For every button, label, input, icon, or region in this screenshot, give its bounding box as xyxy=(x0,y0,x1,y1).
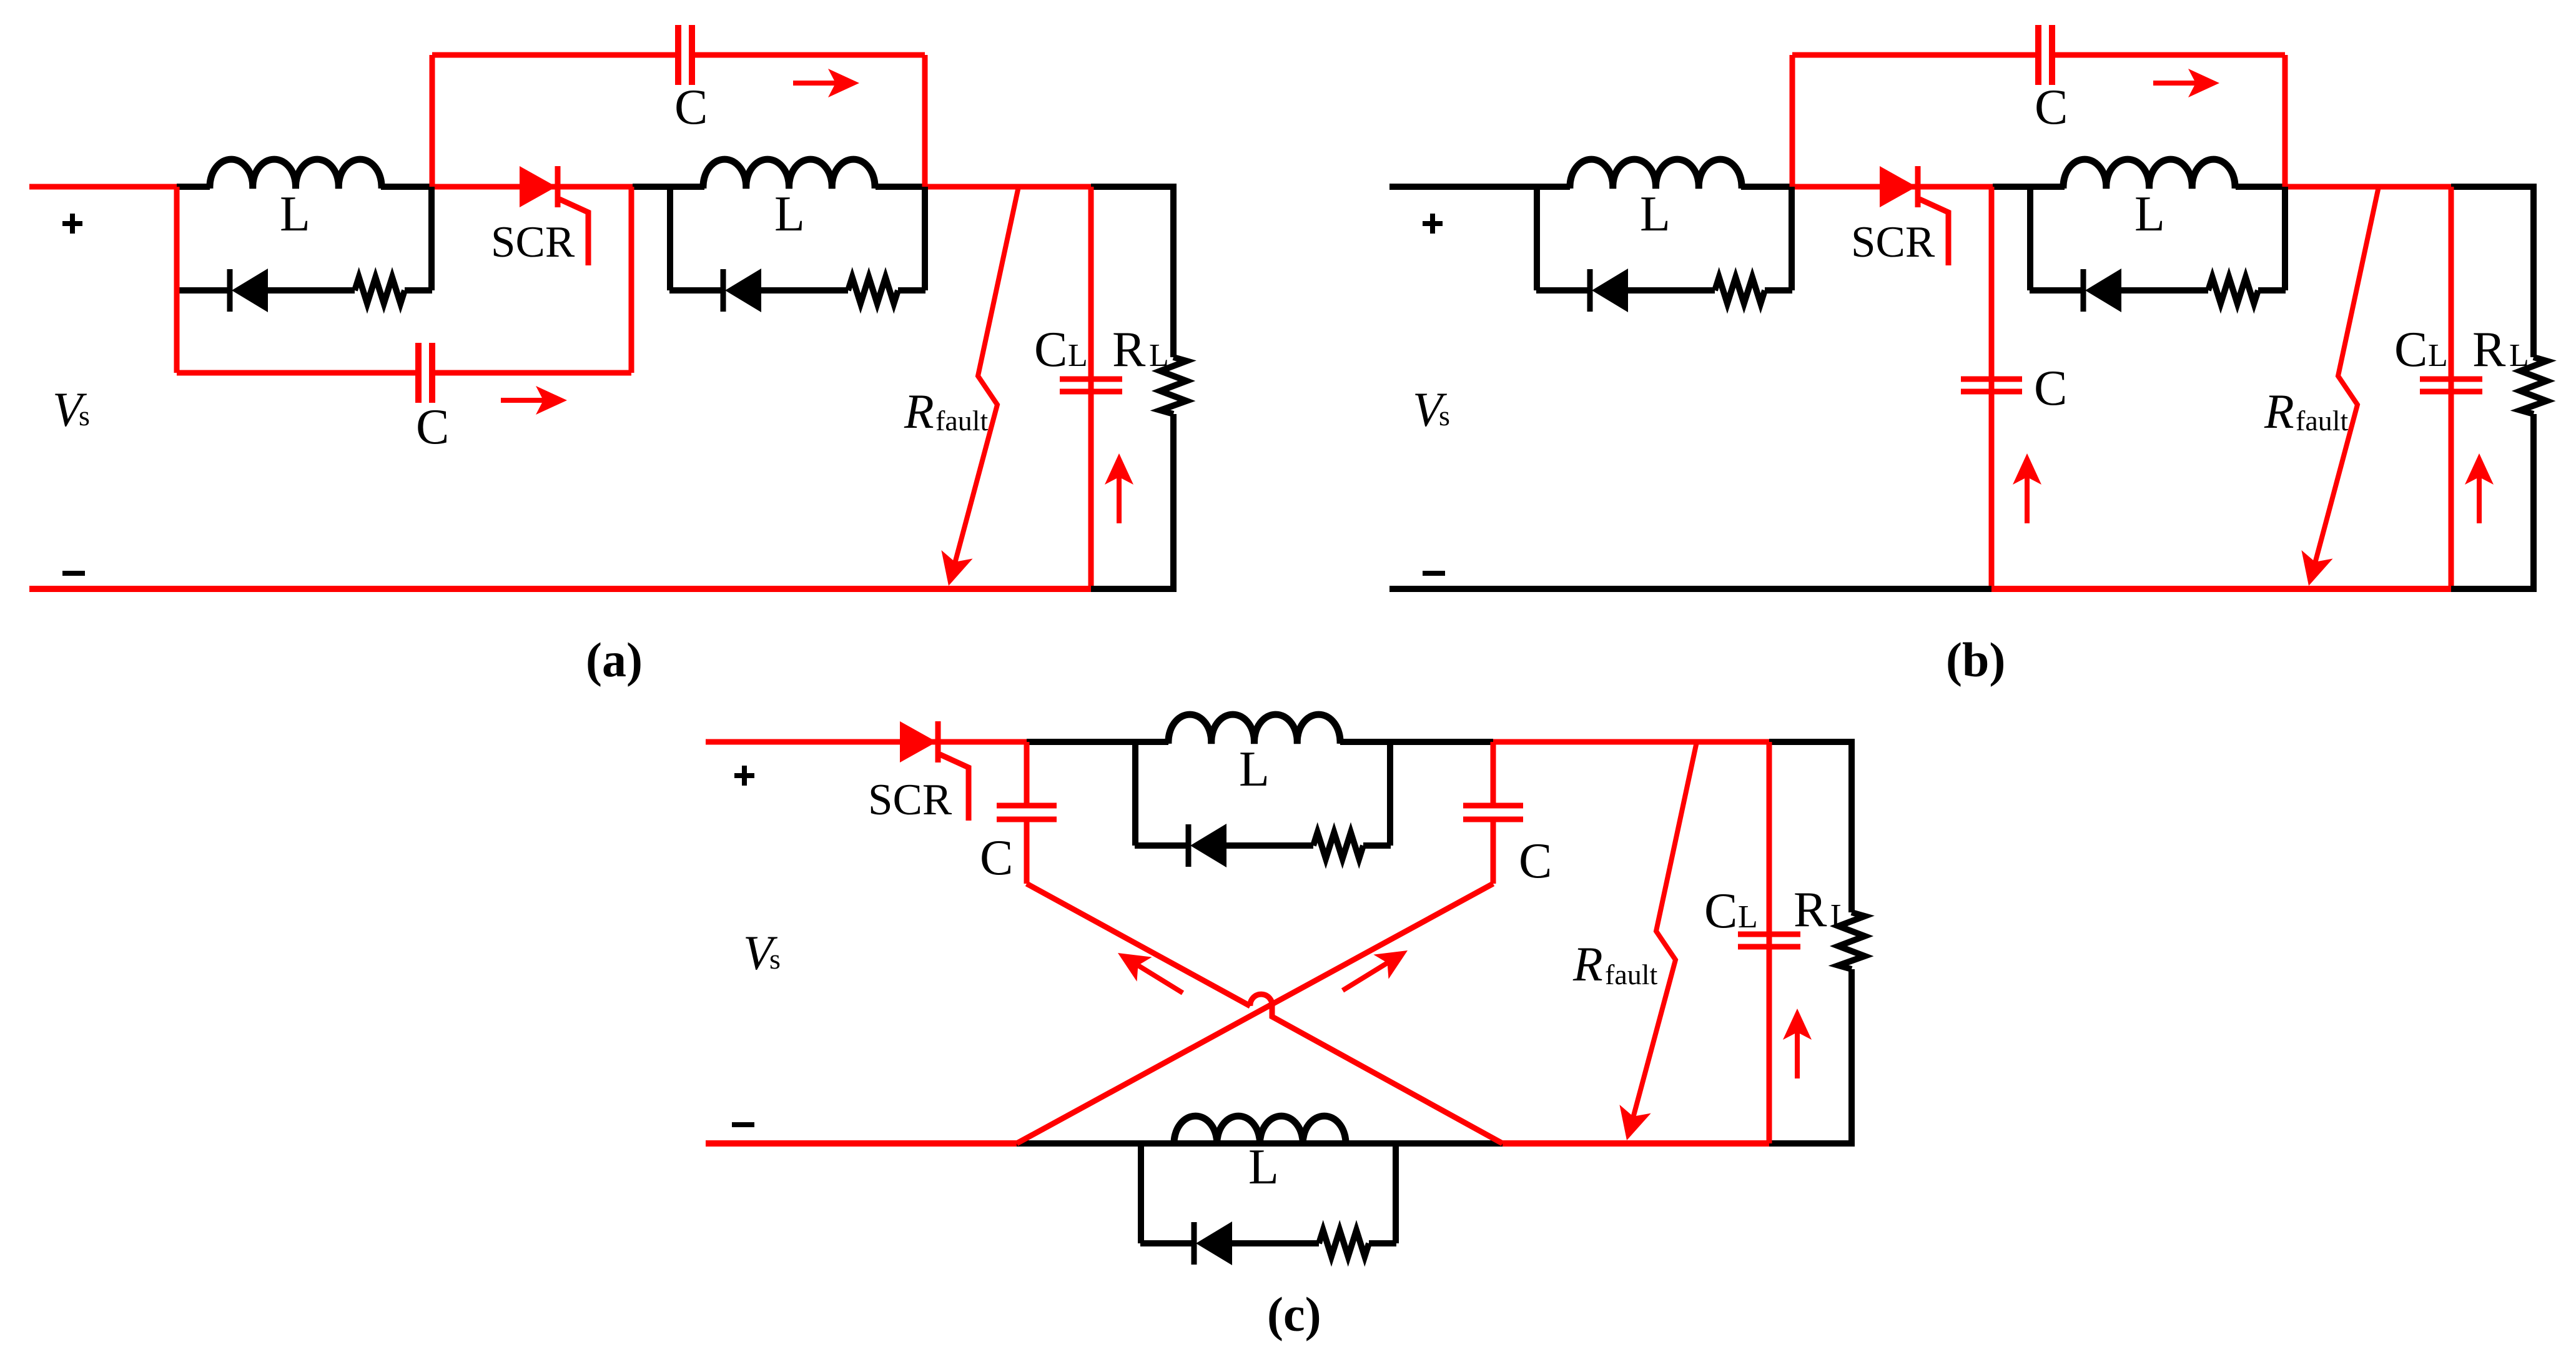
svg-text:R: R xyxy=(1794,882,1827,937)
svg-text:s: s xyxy=(79,400,90,432)
svg-text:L: L xyxy=(1239,742,1270,797)
svg-text:L: L xyxy=(1068,338,1088,373)
svg-text:L: L xyxy=(1248,1140,1279,1195)
svg-text:C: C xyxy=(2034,361,2067,416)
svg-text:C: C xyxy=(1519,834,1552,889)
svg-text:C: C xyxy=(2035,80,2068,135)
svg-text:SCR: SCR xyxy=(491,218,575,267)
svg-text:fault: fault xyxy=(935,405,989,437)
svg-text:SCR: SCR xyxy=(868,776,952,824)
svg-text:R: R xyxy=(1112,322,1146,377)
svg-text:C: C xyxy=(1704,884,1737,939)
svg-text:C: C xyxy=(1034,322,1067,377)
svg-text:s: s xyxy=(769,943,781,975)
svg-text:s: s xyxy=(1439,400,1450,432)
svg-text:R: R xyxy=(904,384,934,438)
svg-text:(a): (a) xyxy=(586,633,643,687)
svg-text:L: L xyxy=(1830,898,1850,934)
svg-text:C: C xyxy=(980,831,1013,886)
svg-text:fault: fault xyxy=(1605,959,1658,990)
svg-text:fault: fault xyxy=(2296,405,2349,437)
svg-text:L: L xyxy=(2134,187,2165,242)
svg-text:(c): (c) xyxy=(1267,1287,1321,1341)
svg-text:L: L xyxy=(1149,338,1169,373)
svg-text:L: L xyxy=(2428,338,2448,373)
svg-text:(b): (b) xyxy=(1946,633,2005,687)
svg-text:R: R xyxy=(1572,937,1603,991)
svg-text:R: R xyxy=(2264,384,2294,438)
svg-text:L: L xyxy=(280,187,310,242)
svg-text:L: L xyxy=(1738,899,1758,935)
svg-text:SCR: SCR xyxy=(1851,218,1935,267)
svg-text:C: C xyxy=(416,400,449,455)
svg-text:R: R xyxy=(2472,322,2506,377)
svg-text:C: C xyxy=(2394,322,2427,377)
svg-text:L: L xyxy=(1640,187,1670,242)
svg-text:L: L xyxy=(774,187,805,242)
svg-text:L: L xyxy=(2509,338,2529,373)
svg-text:C: C xyxy=(674,80,708,135)
